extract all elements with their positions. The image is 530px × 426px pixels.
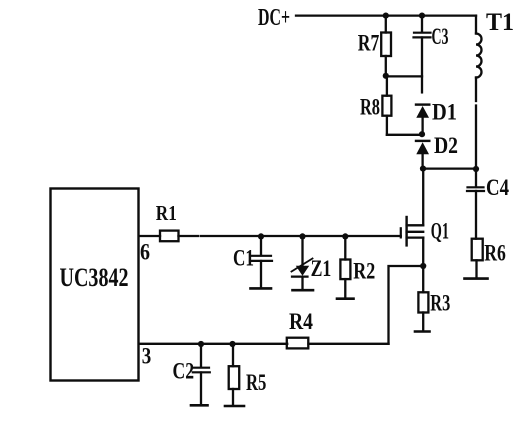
svg-text:R1: R1 [156, 201, 177, 225]
transistor Q1 : N-MOSFET [401, 217, 449, 245]
svg-text:C1: C1 [233, 246, 254, 271]
svg-text:R5: R5 [246, 370, 266, 395]
node rail-R7 junction [383, 13, 389, 19]
wire R7 bottom to C3/D1 branch [386, 75, 422, 77]
resistor R1 [156, 201, 179, 241]
svg-text:Q1: Q1 [431, 219, 449, 244]
svg-text:R7: R7 [358, 31, 380, 56]
svg-text:D2: D2 [434, 133, 458, 158]
svg-text:6: 6 [140, 240, 150, 265]
svg-text:R4: R4 [289, 309, 313, 334]
wire top rail DC+ [296, 14, 476, 16]
resistor R4 [287, 309, 314, 348]
wire Q1 drain lead [422, 169, 424, 226]
node gate-R2 junction [342, 233, 348, 239]
ground (C1) [251, 287, 272, 290]
wire pin6 to R1 [139, 235, 160, 237]
resistor R3 [418, 266, 450, 330]
node rail-C3 junction [419, 13, 425, 19]
ground (Z1) [293, 289, 314, 292]
node gate-C1 junction [258, 233, 264, 239]
diode D2 [416, 133, 458, 169]
node pin3-R5 junction [229, 341, 235, 347]
capacitor C3 [414, 16, 449, 93]
svg-text:R8: R8 [360, 95, 380, 120]
wire source to feedback (left then down to pin3 net) [389, 266, 424, 344]
zener diode Z1 [292, 236, 332, 288]
node R7 bottom junction [383, 73, 389, 79]
IC U1 UC3842 PWM controller [51, 189, 139, 381]
resistor R8 [360, 76, 391, 134]
ground (R6) [465, 277, 488, 280]
diode D1 [416, 100, 457, 135]
svg-text:3: 3 [142, 344, 152, 369]
ground (R5) [225, 405, 244, 408]
svg-text:R2: R2 [353, 259, 375, 284]
svg-text:C4: C4 [486, 175, 509, 200]
wire R8 bottom to D1-D2 junction [387, 134, 422, 136]
svg-text:UC3842: UC3842 [60, 263, 129, 292]
node D1-D2-R8 junction [419, 131, 425, 137]
ground (R3) [415, 330, 430, 333]
node Q1 source junction [420, 263, 426, 269]
resistor R6 [472, 239, 506, 278]
resistor R7 [358, 16, 391, 76]
svg-text:C3: C3 [432, 24, 449, 49]
svg-text:C2: C2 [173, 359, 195, 384]
node gate-Z1 junction [299, 233, 305, 239]
node pin3-C2 junction [198, 341, 204, 347]
node D2 bottom / drain junction [420, 166, 426, 172]
svg-text:Z1: Z1 [311, 256, 332, 281]
svg-text:DC+: DC+ [258, 5, 290, 31]
svg-text:T1: T1 [486, 9, 514, 36]
wire pin3 net right segment [309, 343, 389, 345]
svg-text:R6: R6 [484, 241, 506, 266]
wire drain node to T1 bottom [423, 167, 476, 169]
ground (C2) [191, 404, 208, 407]
capacitor C2 [173, 344, 210, 404]
wire Q1 source lead [422, 238, 424, 266]
svg-text:D1: D1 [432, 100, 457, 125]
transformer T1 primary winding [476, 9, 514, 169]
resistor R2 [340, 236, 375, 297]
svg-text:R3: R3 [430, 291, 450, 316]
capacitor C4 [467, 169, 509, 239]
capacitor C1 [233, 236, 272, 287]
wire to Q1 gate [201, 235, 401, 237]
wire pin3 net left segment [139, 343, 287, 345]
wire R1 to C1 node [179, 235, 199, 237]
resistor R5 [229, 344, 267, 405]
ground (R2) [337, 297, 354, 300]
node T1 bottom junction [473, 166, 479, 172]
